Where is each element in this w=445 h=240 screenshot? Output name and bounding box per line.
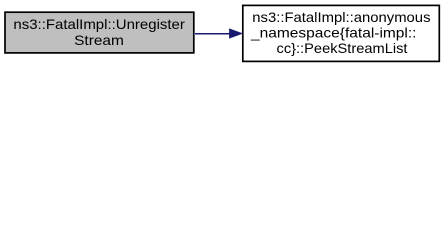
svg-text:Stream: Stream xyxy=(74,32,124,48)
wire: edge shaft xyxy=(195,33,230,35)
svg-text:ns3::FatalImpl::Unregister: ns3::FatalImpl::Unregister xyxy=(13,16,185,32)
svg-text:_namespace{fatal-impl::: _namespace{fatal-impl:: xyxy=(250,25,417,41)
node U2: ns3::FatalImpl::anonymous_namespace{fatal-impl::cc}::PeekStreamList (callee, white box) xyxy=(243,5,439,61)
edge: call arrow from UnregisterStream to PeekStreamList xyxy=(195,29,242,38)
svg-text:cc}::PeekStreamList: cc}::PeekStreamList xyxy=(277,40,408,56)
arrowhead xyxy=(230,29,242,38)
node U1: ns3::FatalImpl::UnregisterStream (caller, grey box) xyxy=(5,12,194,53)
svg-text:ns3::FatalImpl::anonymous: ns3::FatalImpl::anonymous xyxy=(252,9,430,25)
